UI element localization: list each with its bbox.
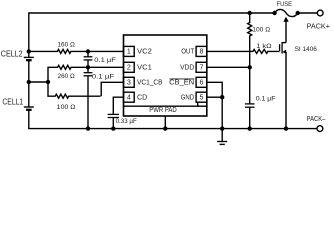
node Ce rail — [248, 126, 252, 130]
ground symbol — [217, 129, 227, 145]
wire pin5 GND to junction — [207, 96, 222, 98]
svg-text:0.1 µF: 0.1 µF — [94, 57, 116, 64]
svg-text:VC2: VC2 — [137, 48, 152, 56]
wire mid node to CELL1+ — [28, 82, 30, 107]
wire CELL1- down to bottom rail — [29, 110, 317, 129]
pin 2 box — [124, 62, 135, 72]
svg-text:0.1 µF: 0.1 µF — [256, 96, 276, 103]
svg-text:8: 8 — [200, 48, 204, 56]
wire 160ohm junction to pin1 VC2 — [88, 50, 124, 52]
fuse F1 — [275, 9, 298, 16]
svg-text:GND: GND — [181, 94, 195, 102]
svg-text:CELL2: CELL2 — [1, 49, 23, 58]
wire jog up to pin3 VC1_CB — [101, 82, 123, 96]
wire GND junction down to rail — [221, 97, 223, 128]
wire pin6 CB_EN to GND net — [207, 82, 222, 97]
wire mid rail to mid node — [29, 81, 48, 83]
capacitor Ca 0.1uF (VC2-VC1) — [84, 51, 93, 67]
svg-text:PWR PAD: PWR PAD — [149, 106, 177, 114]
transistor Q1 SI1406 — [280, 21, 286, 128]
node fuse left — [272, 11, 276, 15]
pin 8 box — [196, 46, 207, 56]
Q1 source arrow — [282, 50, 286, 54]
node mid rail — [27, 80, 31, 84]
IC U1 body — [124, 35, 207, 116]
svg-text:CB_EN: CB_EN — [169, 79, 194, 87]
node CELL2+/VC2 — [27, 49, 31, 53]
svg-text:VC1_CB: VC1_CB — [137, 79, 163, 87]
svg-text:5: 5 — [200, 94, 204, 102]
wire VC1 junction to pin2 VC1 — [88, 66, 124, 68]
node VC1 cap — [86, 65, 90, 69]
node pad rail — [163, 126, 167, 130]
svg-text:VDD: VDD — [180, 64, 194, 72]
resistor 100 ohm (VC1_CB) — [48, 82, 100, 98]
pin 1 box — [124, 46, 135, 56]
pin 4 box — [124, 92, 135, 102]
node gnd rail — [220, 126, 224, 130]
node source rail — [284, 126, 288, 130]
pin 5 box — [196, 92, 207, 102]
svg-text:260 Ω: 260 Ω — [58, 73, 76, 80]
node Cb rail — [86, 126, 90, 130]
svg-text:SI 1406: SI 1406 — [295, 46, 318, 53]
resistor 260 ohm — [48, 65, 88, 82]
resistor 100 ohm (VDD) vertical — [248, 13, 252, 67]
pin 6 box — [196, 77, 207, 87]
svg-text:0.33 µF: 0.33 µF — [116, 118, 137, 125]
pin 7 box — [196, 62, 207, 72]
svg-text:1 kΩ: 1 kΩ — [256, 43, 272, 50]
wire fuse to PACK+ terminal — [298, 12, 318, 14]
resistor 160 ohm — [29, 49, 88, 53]
capacitor Cd 0.33uF — [108, 114, 119, 128]
svg-text:3: 3 — [127, 79, 131, 87]
capacitor Ce 0.1uF (VDD-GND) — [245, 67, 255, 128]
capacitor Cb 0.1uF (VC1-GND) — [84, 67, 93, 128]
label CB_EN overline — [170, 78, 195, 80]
Q1 drain arrow to fuse — [283, 17, 288, 22]
node Cd rail — [111, 126, 115, 130]
svg-text:PACK–: PACK– — [307, 115, 326, 123]
svg-text:6: 6 — [200, 79, 204, 87]
wire pad to ground rail — [164, 116, 166, 129]
wire pin4 CD to Cd cap — [113, 97, 123, 114]
svg-text:7: 7 — [200, 64, 204, 72]
node VC2 cap — [86, 49, 90, 53]
svg-text:OUT: OUT — [181, 48, 194, 56]
resistor 1k ohm — [207, 49, 279, 53]
svg-text:100 Ω: 100 Ω — [252, 26, 270, 33]
battery CELL2 — [24, 57, 34, 60]
terminal PACK+ — [317, 10, 323, 16]
svg-text:CELL1: CELL1 — [2, 98, 23, 107]
pin 3 box — [124, 77, 135, 87]
wire top rail from CELL2+ to fuse — [29, 13, 275, 57]
svg-text:VC1: VC1 — [137, 64, 152, 72]
svg-text:CD: CD — [137, 94, 147, 102]
node VDD — [248, 65, 252, 69]
IC U1 pwr pad divider — [124, 102, 198, 106]
svg-text:FUSE: FUSE — [277, 1, 293, 8]
svg-text:4: 4 — [127, 94, 131, 102]
node mid — [46, 80, 50, 84]
node 100ohm top — [248, 11, 252, 15]
terminal PACK- — [317, 126, 323, 132]
node CB_EN/GND — [220, 95, 224, 99]
svg-text:100 Ω: 100 Ω — [57, 104, 76, 111]
svg-text:1: 1 — [127, 48, 131, 56]
svg-text:PACK+: PACK+ — [307, 23, 330, 31]
svg-text:0.1 µF: 0.1 µF — [92, 73, 115, 80]
wire CELL2- to mid node — [28, 60, 30, 82]
svg-text:2: 2 — [127, 64, 131, 72]
wire pin7 VDD to 100ohm net — [207, 66, 250, 68]
svg-text:160 Ω: 160 Ω — [57, 42, 75, 49]
node fuse right — [296, 11, 300, 15]
battery CELL1 — [24, 107, 34, 110]
